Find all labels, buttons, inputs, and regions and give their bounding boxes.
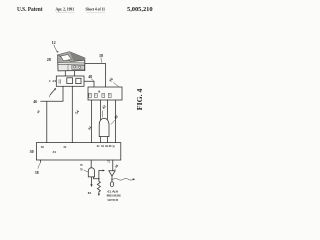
wire cassette right to driver (net 18) [85, 64, 106, 88]
label 54 [74, 110, 80, 116]
label 16 with leader [108, 77, 114, 83]
FIG. 4 label [135, 88, 144, 110]
svg-text:82: 82 [88, 191, 92, 195]
cassette 12 (isometric box) [58, 52, 85, 71]
svg-text:SWITCH: SWITCH [107, 198, 118, 202]
header rule under date [56, 11, 74, 13]
svg-text:42: 42 [101, 104, 107, 109]
inverter triangle 58 [109, 171, 115, 176]
box2 inner block A [67, 78, 73, 84]
small lamp down arrow [90, 177, 92, 185]
bottom box (controller) [36, 143, 120, 160]
wire node up and arrow right [99, 171, 104, 179]
lamp leads to bottom box [99, 137, 101, 143]
label 44 pin1 [87, 125, 92, 130]
label 42 [101, 104, 107, 109]
wire to lamp 56 [90, 160, 92, 169]
svg-text:46: 46 [33, 100, 37, 104]
pointer arrow 14 [50, 89, 55, 95]
svg-text:40: 40 [114, 114, 120, 119]
svg-text:38: 38 [35, 171, 39, 175]
svg-text:2: 2 [49, 79, 51, 83]
box2 (head interface) [56, 76, 84, 86]
svg-text:58: 58 [114, 164, 119, 169]
wire lamp to resistor node [93, 177, 98, 179]
svg-text:5,005,210: 5,005,210 [127, 6, 153, 13]
wire cassette to box2 left [64, 71, 66, 76]
label 40 [114, 114, 120, 119]
driver pin 1 wire [90, 100, 92, 143]
svg-text:34: 34 [52, 150, 56, 154]
svg-text:30: 30 [30, 149, 34, 154]
svg-text:24: 24 [52, 79, 56, 83]
svg-text:FIG. 4: FIG. 4 [135, 88, 144, 110]
svg-text:U.S. Patent: U.S. Patent [17, 6, 43, 13]
junction node [98, 178, 99, 179]
svg-text:Apr. 2, 1991: Apr. 2, 1991 [56, 7, 75, 11]
driver pin 2 wire to lamp [99, 100, 101, 120]
wire cassette to box2 right [74, 71, 76, 76]
driver pin 3 wire to lamp [106, 100, 108, 120]
box2 inner block B [76, 78, 81, 83]
stub + label 38 bottom-left [39, 160, 41, 162]
driver pin 4 wire [114, 100, 116, 143]
svg-text:78: 78 [80, 169, 83, 172]
wire to inverter [112, 160, 114, 171]
svg-text:76: 76 [80, 164, 83, 167]
svg-text:44: 44 [36, 109, 41, 114]
wire box2 right output straight [71, 86, 73, 142]
inverter output squiggle arrow [111, 176, 113, 179]
svg-text:54: 54 [74, 110, 80, 116]
header rule under sheet [87, 11, 106, 13]
svg-text:72: 72 [107, 161, 110, 164]
wire box2 left output jog [41, 86, 63, 142]
component below node (crystal) [111, 179, 113, 181]
driver box 16 [88, 87, 122, 100]
cassette front circles [74, 66, 76, 68]
svg-text:48: 48 [88, 75, 92, 79]
label 58 [114, 164, 119, 169]
svg-text:36: 36 [41, 145, 45, 149]
svg-text:Sheet 4 of 11: Sheet 4 of 11 [86, 8, 106, 12]
svg-text:32: 32 [63, 145, 67, 149]
lamp 56 (small bulb) [88, 168, 94, 177]
svg-text:PRESSURE: PRESSURE [107, 194, 122, 198]
resistor R [97, 179, 100, 195]
svg-text:18: 18 [99, 53, 103, 58]
svg-text:12: 12 [52, 40, 56, 45]
wire box2 to driver (net 48) [84, 81, 94, 87]
label 44 (left wire) [36, 109, 41, 114]
svg-text:28: 28 [47, 57, 51, 62]
lamp 42 (bulb) [99, 118, 109, 136]
svg-text:16: 16 [108, 77, 114, 83]
